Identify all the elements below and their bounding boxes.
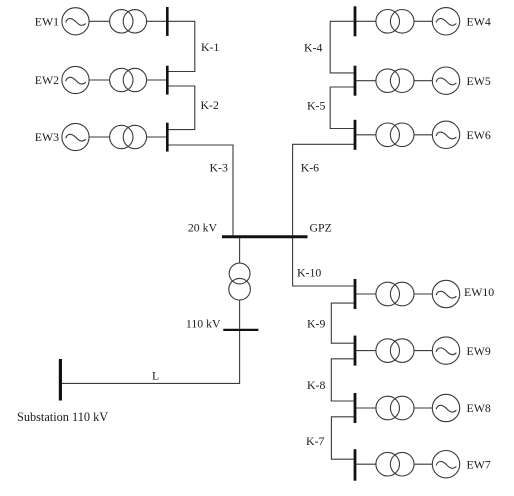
svg-text:EW7: EW7 [467, 457, 491, 471]
svg-text:K-9: K-9 [307, 317, 325, 331]
svg-text:EW5: EW5 [467, 74, 491, 88]
svg-text:EW4: EW4 [467, 15, 491, 29]
svg-text:K-6: K-6 [301, 161, 319, 175]
svg-text:20 kV: 20 kV [188, 221, 218, 235]
svg-text:K-8: K-8 [307, 378, 325, 392]
svg-text:K-5: K-5 [307, 99, 325, 113]
svg-text:EW2: EW2 [35, 73, 59, 87]
svg-text:K-1: K-1 [201, 40, 219, 54]
svg-text:EW3: EW3 [35, 130, 59, 144]
svg-text:K-7: K-7 [306, 434, 324, 448]
svg-text:L: L [152, 369, 159, 383]
svg-text:K-3: K-3 [210, 161, 228, 175]
svg-text:K-4: K-4 [304, 41, 322, 55]
svg-text:EW9: EW9 [467, 344, 491, 358]
svg-text:EW8: EW8 [467, 401, 491, 415]
svg-text:110 kV: 110 kV [186, 317, 221, 331]
svg-text:K-10: K-10 [297, 266, 321, 280]
svg-text:EW6: EW6 [467, 128, 491, 142]
svg-text:EW1: EW1 [35, 15, 59, 29]
svg-text:Substation 110 kV: Substation 110 kV [17, 410, 108, 424]
svg-text:GPZ: GPZ [310, 221, 332, 235]
svg-text:K-2: K-2 [201, 98, 219, 112]
svg-text:EW10: EW10 [464, 285, 494, 299]
